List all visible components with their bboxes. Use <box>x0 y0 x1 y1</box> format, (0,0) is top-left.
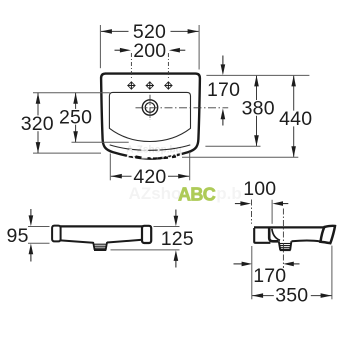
plan view bowl front lip arc <box>110 145 191 150</box>
left extension line 320 bottom <box>33 152 101 154</box>
front view top line <box>52 225 151 227</box>
svg-text:A-Zshop.bg: A-Zshop.bg <box>126 145 182 156</box>
svg-text:440: 440 <box>279 108 312 130</box>
drain centreline vertical <box>149 95 151 120</box>
dim 350 line <box>252 284 332 306</box>
side view top line <box>254 226 325 228</box>
left extension line top <box>33 92 110 94</box>
dim 125 arrows <box>174 210 179 268</box>
dim 420 extension lines <box>109 154 111 181</box>
dim 520 line and arrows <box>101 21 199 43</box>
dim 320 line <box>20 93 56 153</box>
side view drain trap <box>279 241 292 250</box>
watermark arc fragments <box>136 156 177 158</box>
front view underside right <box>107 240 142 243</box>
svg-text:170: 170 <box>207 79 240 101</box>
dim 125 extension lines <box>154 226 180 228</box>
watermark white text over arc <box>126 145 183 162</box>
svg-text:95: 95 <box>7 225 29 247</box>
svg-text:AZsho: AZsho <box>129 184 182 203</box>
front view left cap <box>52 226 61 242</box>
dim 95 extension lines <box>28 226 50 228</box>
side view back horn <box>321 226 336 243</box>
svg-text:320: 320 <box>21 113 54 135</box>
plan view outer outline <box>101 74 200 159</box>
side view right extension line <box>331 246 333 300</box>
dim 170 bottom arrow <box>221 108 226 125</box>
side view left extension line <box>251 246 253 299</box>
drain <box>142 100 157 115</box>
dim 420 line <box>111 166 189 188</box>
dim 170 top arrow <box>221 56 226 76</box>
left extension line 250 bottom <box>72 141 129 143</box>
dim 170 side arrows <box>234 262 300 267</box>
dim 520 extension lines <box>99 25 101 68</box>
side view centreline <box>282 209 284 269</box>
side view front skirt <box>254 228 270 243</box>
dim 200 arrows and text <box>115 40 186 62</box>
svg-text:100: 100 <box>243 178 276 200</box>
dim 95 arrows <box>29 209 34 262</box>
svg-text:380: 380 <box>242 98 275 120</box>
tap hole right <box>164 81 172 89</box>
dim 380 line <box>241 75 277 146</box>
svg-text:250: 250 <box>59 107 92 129</box>
side view underside right <box>292 240 321 243</box>
front view right cap <box>142 226 151 243</box>
svg-text:125: 125 <box>161 228 194 250</box>
front view underside left <box>60 240 93 242</box>
right extension line top <box>206 74 309 76</box>
side view skirt inner wall <box>269 228 278 241</box>
tap hole centre <box>146 81 154 89</box>
right extension line 380 bottom <box>205 145 260 147</box>
dim 100 arrows <box>235 201 288 206</box>
dim 200 hole extension dashed lines <box>130 53 132 79</box>
front view drain trap <box>93 242 107 250</box>
plan view inner rim <box>109 92 190 141</box>
svg-text:200: 200 <box>133 40 166 62</box>
dim 250 line <box>58 93 94 142</box>
svg-text:350: 350 <box>275 284 308 306</box>
svg-text:ABC: ABC <box>178 185 216 205</box>
drain centreline horizontal <box>136 107 229 109</box>
dim 440 line <box>278 75 314 157</box>
tap hole left <box>127 81 135 89</box>
svg-text:p.b: p.b <box>216 184 242 203</box>
right extension line 440 bottom <box>182 156 298 158</box>
side view bowl inner wall <box>272 229 280 241</box>
dim 100 extension lines <box>251 200 253 224</box>
